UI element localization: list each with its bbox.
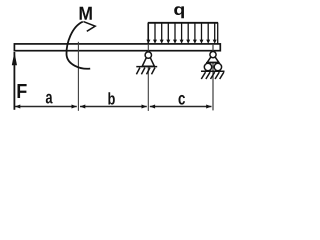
dimension line segment b [80,106,147,108]
pin support triangle [142,54,154,67]
load arrows [146,23,216,44]
roller left [204,63,211,70]
load right end line [217,23,219,44]
label a [46,94,53,104]
label q [174,6,184,18]
force F arrow shaft [13,52,15,110]
dimension line segment a [15,106,77,108]
label c [179,95,186,105]
label M [80,7,92,20]
pin support circle [145,52,151,58]
roller right [214,63,221,70]
dimension arrow a right [72,105,77,109]
roller support triangle [207,54,219,63]
label b [108,92,114,104]
roller support pin circle [210,52,216,58]
label F [18,84,27,98]
moment M arrowhead [83,22,95,32]
moment M arc [66,22,90,69]
distributed load q top line [148,22,218,24]
beam [14,44,220,51]
dimension arrow c right [206,105,211,109]
force F arrowhead [12,52,17,65]
roller support hatching [201,72,224,79]
extension line node D (roller support) [212,44,214,110]
dimension arrow c left [150,105,155,109]
extension line node C (pin support) [147,44,149,111]
dimension arrow b right [142,105,147,109]
dimension line segment c [150,106,212,108]
dimension arrow a left [15,105,20,109]
pin support base line [136,66,157,68]
roller support ground line [201,70,225,72]
roller support base line [206,62,219,64]
load left end line [147,23,149,44]
extension line node B (under moment) [77,42,79,111]
dimension arrow b left [80,105,85,109]
pin support hatching [136,68,155,75]
